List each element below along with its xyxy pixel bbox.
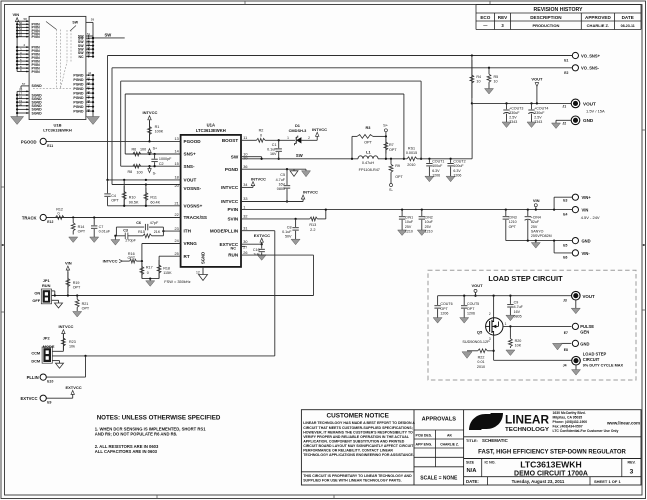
- svg-text:PRODUCTION: PRODUCTION: [532, 23, 559, 28]
- svg-text:SGND: SGND: [32, 84, 43, 88]
- svg-text:10: 10: [494, 80, 498, 84]
- svg-text:PGND: PGND: [73, 87, 84, 91]
- svg-text:1: 1: [287, 136, 289, 140]
- svg-text:E5: E5: [563, 243, 567, 247]
- svg-text:10: 10: [476, 80, 480, 84]
- svg-text:SGND: SGND: [32, 111, 43, 115]
- svg-text:AK: AK: [447, 434, 453, 438]
- svg-text:E9: E9: [47, 401, 51, 405]
- svg-text:DESCRIPTION: DESCRIPTION: [530, 15, 562, 20]
- svg-text:7343: 7343: [509, 120, 517, 124]
- svg-text:VO_SNS-: VO_SNS-: [581, 66, 600, 71]
- svg-text:VIN: VIN: [533, 198, 540, 203]
- svg-text:APPROVED: APPROVED: [585, 15, 611, 20]
- svg-text:NC: NC: [78, 55, 84, 59]
- svg-text:R13: R13: [309, 223, 316, 227]
- svg-text:SVIN: SVIN: [227, 217, 238, 222]
- svg-text:C7: C7: [99, 225, 104, 229]
- svg-text:VOUT: VOUT: [184, 178, 197, 183]
- svg-text:16V: 16V: [270, 152, 277, 156]
- svg-text:R23: R23: [69, 340, 76, 344]
- svg-text:2: 2: [489, 312, 491, 316]
- svg-text:50V: 50V: [285, 235, 292, 239]
- svg-text:0805: 0805: [514, 314, 522, 318]
- svg-text:36: 36: [243, 165, 247, 169]
- svg-text:60.4K: 60.4K: [150, 200, 160, 204]
- svg-text:100: 100: [140, 147, 146, 151]
- svg-text:C4: C4: [111, 194, 116, 198]
- svg-text:23: 23: [174, 227, 178, 231]
- svg-text:57: 57: [22, 82, 26, 86]
- svg-text:R14: R14: [78, 225, 85, 229]
- svg-text:EXTVCC: EXTVCC: [65, 385, 81, 390]
- svg-text:40: 40: [87, 90, 91, 94]
- svg-text:58: 58: [24, 17, 28, 21]
- svg-text:CIN1: CIN1: [405, 216, 413, 220]
- svg-text:CUSTOMER NOTICE: CUSTOMER NOTICE: [327, 413, 390, 420]
- svg-text:COUT2: COUT2: [453, 160, 465, 164]
- svg-text:SW: SW: [231, 155, 239, 160]
- svg-text:CIRCUIT: CIRCUIT: [583, 357, 600, 362]
- svg-text:0.01uF: 0.01uF: [99, 230, 111, 234]
- svg-text:R10: R10: [129, 196, 136, 200]
- svg-text:1.5V / 15A: 1.5V / 15A: [586, 109, 605, 114]
- svg-text:RS1: RS1: [408, 147, 415, 151]
- svg-text:R3: R3: [366, 125, 372, 130]
- svg-text:TITLE:: TITLE:: [466, 439, 478, 443]
- svg-text:0: 0: [260, 134, 262, 138]
- svg-text:GND: GND: [580, 341, 589, 346]
- svg-text:1210: 1210: [509, 220, 517, 224]
- svg-text:20: 20: [19, 103, 23, 107]
- svg-text:PVIN: PVIN: [32, 35, 41, 39]
- svg-text:SW: SW: [296, 153, 303, 158]
- svg-text:38: 38: [87, 99, 91, 103]
- svg-text:4.7uF: 4.7uF: [514, 305, 524, 309]
- svg-text:C10: C10: [253, 248, 260, 252]
- svg-text:RUN: RUN: [228, 253, 239, 258]
- svg-text:PGND: PGND: [225, 167, 239, 172]
- svg-text:0805: 0805: [277, 187, 285, 191]
- svg-text:1206: 1206: [467, 311, 475, 315]
- svg-text:PGND: PGND: [73, 91, 84, 95]
- svg-text:VOUT: VOUT: [583, 101, 596, 106]
- svg-text:Q5: Q5: [477, 329, 483, 334]
- svg-text:ON: ON: [34, 291, 40, 296]
- svg-text:INTVCC: INTVCC: [142, 110, 157, 115]
- svg-text:TRACK/SS: TRACK/SS: [184, 215, 207, 220]
- svg-text:115K: 115K: [163, 271, 172, 275]
- svg-text:R17: R17: [146, 265, 153, 269]
- svg-text:33: 33: [243, 197, 247, 201]
- svg-text:DATE:: DATE:: [466, 479, 479, 484]
- svg-text:SUD50N03-12P: SUD50N03-12P: [462, 340, 490, 344]
- svg-text:EXTVCC: EXTVCC: [254, 233, 270, 238]
- svg-text:J4: J4: [563, 364, 567, 368]
- svg-text:42: 42: [87, 81, 91, 85]
- svg-text:LOAD STEP CIRCUIT: LOAD STEP CIRCUIT: [488, 274, 563, 283]
- svg-text:21: 21: [174, 202, 178, 206]
- svg-text:100uF: 100uF: [432, 164, 443, 168]
- svg-text:PGND: PGND: [73, 96, 84, 100]
- svg-text:R4: R4: [476, 75, 481, 79]
- svg-text:SUPPLIED FOR USE WITH LINEAR T: SUPPLIED FOR USE WITH LINEAR TECHNOLOGY …: [303, 479, 401, 483]
- svg-text:90.5K: 90.5K: [129, 200, 139, 204]
- svg-text:15: 15: [174, 162, 178, 166]
- svg-text:25V: 25V: [531, 225, 538, 229]
- svg-text:12: 12: [196, 271, 200, 275]
- svg-text:E3: E3: [563, 199, 567, 203]
- svg-text:25V: 25V: [405, 225, 412, 229]
- svg-text:R18: R18: [163, 266, 170, 270]
- svg-text:+CIN4: +CIN4: [531, 216, 541, 220]
- svg-text:R2: R2: [259, 128, 264, 132]
- svg-text:VIN: VIN: [65, 261, 72, 266]
- svg-text:NC: NC: [231, 247, 237, 251]
- svg-text:E10: E10: [47, 380, 53, 384]
- svg-text:CMDSH-3: CMDSH-3: [289, 128, 308, 133]
- svg-text:1uF: 1uF: [253, 253, 260, 257]
- svg-text:PGND: PGND: [73, 109, 84, 113]
- svg-text:SW: SW: [72, 21, 78, 25]
- svg-text:18: 18: [174, 176, 178, 180]
- svg-text:VERIFY PROPER AND RELIABLE OPE: VERIFY PROPER AND RELIABLE OPERATION IN …: [303, 435, 410, 439]
- svg-text:11: 11: [243, 136, 247, 140]
- svg-text:REV.: REV.: [627, 460, 635, 464]
- svg-text:2.5V: 2.5V: [509, 116, 517, 120]
- svg-text:C5: C5: [280, 173, 285, 177]
- svg-text:U1A: U1A: [207, 123, 215, 128]
- svg-text:REV: REV: [498, 15, 508, 20]
- svg-text:C2: C2: [159, 162, 164, 166]
- svg-text:100: 100: [137, 170, 143, 174]
- svg-text:C1: C1: [272, 143, 277, 147]
- svg-text:1: 1: [243, 205, 245, 209]
- svg-text:82uF: 82uF: [531, 220, 540, 224]
- svg-text:SHEET 1 OF 1: SHEET 1 OF 1: [594, 479, 621, 484]
- svg-text:OPT: OPT: [73, 286, 81, 290]
- svg-text:Phone: (408)432-1900: Phone: (408)432-1900: [553, 420, 588, 424]
- svg-text:E2: E2: [564, 71, 568, 75]
- svg-text:SGND: SGND: [201, 252, 206, 264]
- svg-text:100K: 100K: [155, 130, 164, 134]
- svg-text:FAST, HIGH EFFICIENCY STEP-DOW: FAST, HIGH EFFICIENCY STEP-DOWN REGULATO…: [478, 450, 626, 456]
- svg-text:VIN: VIN: [582, 208, 589, 213]
- svg-text:PGND: PGND: [73, 105, 84, 109]
- svg-text:51: 51: [87, 32, 91, 36]
- svg-text:0: 0: [147, 271, 149, 275]
- svg-text:2010: 2010: [407, 163, 415, 167]
- svg-text:INTVCC: INTVCC: [251, 177, 266, 182]
- svg-text:FP1108-R47: FP1108-R47: [359, 168, 380, 172]
- svg-text:1206: 1206: [453, 173, 461, 177]
- svg-text:14: 14: [174, 150, 178, 154]
- svg-text:TRACK: TRACK: [22, 215, 37, 220]
- svg-text:3: 3: [630, 469, 634, 476]
- svg-text:PERFORMANCE OR RELIABILITY.: PERFORMANCE OR RELIABILITY. CONTACT LINE…: [303, 449, 393, 453]
- svg-text:E4: E4: [563, 212, 567, 216]
- svg-text:SW: SW: [105, 33, 112, 38]
- svg-text:OPT: OPT: [467, 307, 475, 311]
- svg-text:SCHEMATIC: SCHEMATIC: [482, 438, 509, 443]
- svg-text:AND R9; DO NOT POPULATE R6 AND: AND R9; DO NOT POPULATE R6 AND R8.: [95, 431, 177, 436]
- svg-text:VIN: VIN: [12, 12, 19, 17]
- svg-text:22: 22: [174, 213, 178, 217]
- svg-text:330uF: 330uF: [534, 111, 545, 115]
- svg-text:VOUT: VOUT: [583, 294, 596, 299]
- svg-text:S+: S+: [383, 123, 389, 128]
- svg-text:Milpitas, CA 95035: Milpitas, CA 95035: [553, 416, 583, 420]
- svg-text:32: 32: [243, 215, 247, 219]
- svg-text:LOAD STEP: LOAD STEP: [583, 351, 607, 356]
- svg-text:LINEAR: LINEAR: [505, 413, 549, 427]
- svg-text:C9: C9: [514, 301, 519, 305]
- svg-text:RT: RT: [184, 254, 190, 259]
- svg-text:CIRCUIT BOARD LAYOUT MAY SIGNI: CIRCUIT BOARD LAYOUT MAY SIGNIFICANTLY A…: [303, 444, 414, 448]
- svg-text:INTVCC: INTVCC: [221, 185, 239, 190]
- svg-text:J3: J3: [563, 299, 567, 303]
- svg-text:N/A: N/A: [467, 468, 478, 474]
- svg-text:10uF: 10uF: [425, 220, 434, 224]
- svg-text:R5: R5: [494, 75, 499, 79]
- svg-text:INTVCC: INTVCC: [221, 199, 239, 204]
- svg-text:43: 43: [87, 76, 91, 80]
- svg-text:C6: C6: [136, 221, 141, 225]
- svg-text:PULSE: PULSE: [580, 324, 594, 329]
- svg-text:VIN+: VIN+: [582, 195, 592, 200]
- svg-text:59: 59: [91, 17, 95, 21]
- svg-text:E1: E1: [564, 59, 568, 63]
- svg-text:VIN-: VIN-: [582, 251, 591, 256]
- svg-text:PGND: PGND: [73, 82, 84, 86]
- svg-text:OPT: OPT: [111, 198, 119, 202]
- svg-text:INTVCC: INTVCC: [303, 189, 318, 194]
- svg-text:9% DUTY CYCLE MAX: 9% DUTY CYCLE MAX: [583, 364, 624, 368]
- svg-text:APPROVALS: APPROVALS: [422, 417, 457, 423]
- svg-text:4.7uF: 4.7uF: [276, 178, 286, 182]
- svg-text:330uF: 330uF: [509, 111, 520, 115]
- svg-text:16V: 16V: [514, 310, 521, 314]
- svg-text:JP2: JP2: [43, 336, 51, 341]
- svg-text:OPT: OPT: [440, 307, 448, 311]
- svg-text:1630 McCarthy Blvd.: 1630 McCarthy Blvd.: [553, 411, 586, 415]
- svg-text:52: 52: [19, 33, 23, 37]
- svg-text:SNS-: SNS-: [184, 164, 195, 169]
- svg-text:CIN3: CIN3: [509, 216, 517, 220]
- svg-text:E8: E8: [564, 348, 568, 352]
- svg-text:31: 31: [243, 226, 247, 230]
- svg-text:VO_SNS+: VO_SNS+: [581, 53, 601, 58]
- svg-text:TECHNOLOGY: TECHNOLOGY: [505, 427, 549, 433]
- svg-text:R22: R22: [478, 355, 485, 359]
- svg-text:VOUT: VOUT: [531, 76, 543, 81]
- svg-text:THIS CIRCUIT IS PROPRIETARY TO: THIS CIRCUIT IS PROPRIETARY TO LINEAR TE…: [303, 474, 412, 478]
- svg-text:MODE/PLLIN: MODE/PLLIN: [210, 228, 239, 233]
- svg-text:PGOOD: PGOOD: [184, 139, 202, 144]
- svg-text:34: 34: [243, 183, 247, 187]
- svg-text:COUT6: COUT6: [440, 302, 452, 306]
- svg-text:CHARLIE Z.: CHARLIE Z.: [587, 23, 609, 28]
- svg-text:1206: 1206: [432, 173, 440, 177]
- svg-text:R9: R9: [395, 164, 400, 168]
- svg-text:16V: 16V: [278, 182, 285, 186]
- svg-text:PCB DES.: PCB DES.: [416, 434, 433, 438]
- svg-text:RUN: RUN: [42, 283, 51, 288]
- svg-text:OPT: OPT: [389, 148, 397, 152]
- svg-text:EXTVCC: EXTVCC: [21, 396, 38, 401]
- svg-text:30: 30: [243, 240, 247, 244]
- svg-text:0.1uF: 0.1uF: [282, 230, 292, 234]
- svg-text:0.1uF: 0.1uF: [267, 148, 277, 152]
- svg-text:13: 13: [174, 137, 178, 141]
- svg-text:4.5V - 24V: 4.5V - 24V: [581, 215, 600, 220]
- svg-text:LINEAR TECHNOLOGY HAS MADE A B: LINEAR TECHNOLOGY HAS MADE A BEST EFFORT…: [303, 421, 415, 425]
- svg-text:6.3V: 6.3V: [432, 169, 440, 173]
- svg-text:SIZE: SIZE: [466, 460, 475, 464]
- svg-text:LTC3613EWKH: LTC3613EWKH: [43, 127, 72, 132]
- svg-text:COUT5: COUT5: [467, 302, 479, 306]
- svg-text:36: 36: [87, 108, 91, 112]
- svg-text:FSW = 350kHz: FSW = 350kHz: [164, 279, 190, 284]
- svg-text:100uF: 100uF: [453, 164, 464, 168]
- svg-text:0: 0: [58, 212, 60, 216]
- svg-text:OPT: OPT: [128, 256, 136, 260]
- svg-text:R20: R20: [515, 339, 522, 343]
- svg-text:CHARLIE Z.: CHARLIE Z.: [440, 443, 459, 447]
- svg-text:ITH: ITH: [184, 229, 192, 234]
- svg-text:2: 2: [308, 136, 310, 140]
- svg-text:GND: GND: [582, 239, 591, 244]
- svg-text:6.3V: 6.3V: [453, 169, 461, 173]
- svg-text:LTC3613EWKH: LTC3613EWKH: [520, 460, 581, 470]
- svg-text:Fax: (408)434-0507: Fax: (408)434-0507: [553, 425, 583, 429]
- svg-text:25V: 25V: [425, 225, 432, 229]
- svg-text:10K: 10K: [515, 343, 522, 347]
- svg-text:VOSNS+: VOSNS+: [184, 203, 203, 208]
- svg-text:PGND: PGND: [73, 78, 84, 82]
- svg-text:26: 26: [243, 251, 247, 255]
- svg-text:OPT: OPT: [78, 230, 86, 234]
- svg-text:S+: S+: [153, 147, 158, 151]
- svg-text:VOSNS-: VOSNS-: [184, 186, 202, 191]
- svg-text:10uF: 10uF: [405, 220, 414, 224]
- svg-text:R11: R11: [150, 196, 157, 200]
- svg-text:APP ENG.: APP ENG.: [416, 443, 433, 447]
- svg-text:R21: R21: [82, 302, 89, 306]
- svg-text:47pF: 47pF: [150, 221, 159, 225]
- svg-text:OPT: OPT: [395, 175, 403, 179]
- svg-text:PGND: PGND: [73, 100, 84, 104]
- svg-text:OFF: OFF: [32, 298, 40, 303]
- svg-text:R1: R1: [155, 125, 160, 129]
- svg-text:DATE: DATE: [622, 15, 634, 20]
- svg-text:2.5V: 2.5V: [534, 116, 542, 120]
- svg-text:2010: 2010: [477, 365, 485, 369]
- svg-text:OPT: OPT: [82, 307, 90, 311]
- svg-text:BOOST: BOOST: [222, 138, 239, 143]
- svg-text:PLLIN: PLLIN: [27, 375, 39, 380]
- svg-text:CIN2: CIN2: [425, 216, 433, 220]
- svg-text:GND: GND: [583, 118, 594, 123]
- svg-text:37: 37: [87, 103, 91, 107]
- svg-text:SNS+: SNS+: [184, 152, 196, 157]
- svg-text:APPLICATION. COMPONENT SUBSTI: APPLICATION. COMPONENT SUBSTITUTION AND …: [303, 439, 405, 443]
- svg-text:+COUT4: +COUT4: [534, 106, 548, 110]
- svg-text:LTC3613EWKH: LTC3613EWKH: [196, 128, 226, 133]
- svg-text:39: 39: [87, 94, 91, 98]
- svg-text:ALL CAPACITORS ARE IN 0603: ALL CAPACITORS ARE IN 0603: [95, 449, 158, 454]
- svg-text:Tuesday, August 23, 2011: Tuesday, August 23, 2011: [512, 479, 565, 484]
- svg-text:+COUT3: +COUT3: [509, 106, 523, 110]
- svg-text:25SVPD82M: 25SVPD82M: [531, 234, 552, 238]
- svg-text:46: 46: [87, 53, 91, 57]
- svg-text:41: 41: [87, 85, 91, 89]
- svg-text:LTC Confidential-For Customer: LTC Confidential-For Customer Use Only: [553, 429, 619, 433]
- svg-text:24: 24: [174, 239, 178, 243]
- svg-text:44: 44: [88, 71, 92, 75]
- svg-text:TECHNOLOGY APPLICATIONS ENGINE: TECHNOLOGY APPLICATIONS ENGINEERING FOR …: [303, 453, 414, 457]
- svg-text:0.47uH: 0.47uH: [362, 161, 375, 165]
- svg-text:HOWEVER, IT REMAINS THE CUSTOM: HOWEVER, IT REMAINS THE CUSTOMER'S RESPO…: [303, 430, 413, 434]
- svg-text:VRNG: VRNG: [184, 241, 198, 246]
- svg-text:E11: E11: [47, 144, 53, 148]
- svg-text:270pF: 270pF: [125, 239, 136, 243]
- svg-text:2.2: 2.2: [310, 228, 315, 232]
- svg-text:CCM: CCM: [31, 350, 40, 355]
- svg-text:1000pF: 1000pF: [159, 157, 172, 161]
- svg-text:GEN: GEN: [580, 330, 589, 335]
- svg-text:CIRCUIT THAT MEETS CUSTOMER-SU: CIRCUIT THAT MEETS CUSTOMER-SUPPLIED SPE…: [303, 426, 413, 430]
- svg-text:SCALE = NONE: SCALE = NONE: [420, 476, 458, 482]
- svg-text:0.01: 0.01: [477, 360, 484, 364]
- svg-text:R6: R6: [132, 147, 137, 151]
- svg-text:E7: E7: [564, 331, 568, 335]
- svg-text:ECO: ECO: [480, 15, 490, 20]
- svg-text:1206: 1206: [440, 311, 448, 315]
- svg-text:7343: 7343: [534, 120, 542, 124]
- svg-text:E12: E12: [47, 220, 53, 224]
- svg-text:1210: 1210: [405, 229, 413, 233]
- svg-text:25: 25: [174, 252, 178, 256]
- svg-text:PVIN: PVIN: [227, 207, 238, 212]
- svg-text:0.0015: 0.0015: [406, 151, 417, 155]
- svg-text:OPT: OPT: [509, 225, 517, 229]
- svg-text:INTVCC: INTVCC: [103, 259, 118, 264]
- svg-text:REVISION HISTORY: REVISION HISTORY: [533, 7, 583, 13]
- svg-text:08-23-11: 08-23-11: [621, 24, 635, 28]
- svg-text:IC NO.: IC NO.: [485, 460, 496, 464]
- svg-text:1210: 1210: [425, 229, 433, 233]
- svg-text:COUT1: COUT1: [432, 160, 444, 164]
- svg-text:R8: R8: [128, 170, 133, 174]
- svg-text:10k: 10k: [69, 345, 75, 349]
- svg-text:R7: R7: [389, 143, 394, 147]
- svg-text:DCM: DCM: [31, 358, 40, 363]
- svg-text:J1: J1: [562, 105, 566, 109]
- svg-text:www.linear.com: www.linear.com: [606, 421, 640, 426]
- svg-text:PGND: PGND: [73, 73, 84, 77]
- svg-text:21K: 21K: [154, 230, 161, 234]
- svg-text:C3: C3: [123, 228, 128, 232]
- svg-text:INTVCC: INTVCC: [59, 324, 74, 329]
- svg-text:J2: J2: [562, 121, 566, 125]
- svg-text:R15: R15: [138, 230, 145, 234]
- svg-text:VOUT: VOUT: [471, 283, 483, 288]
- svg-text:SANYO: SANYO: [531, 229, 544, 233]
- svg-text:C8: C8: [287, 225, 292, 229]
- svg-text:PGOOD: PGOOD: [21, 139, 37, 144]
- svg-text:E6: E6: [563, 256, 567, 260]
